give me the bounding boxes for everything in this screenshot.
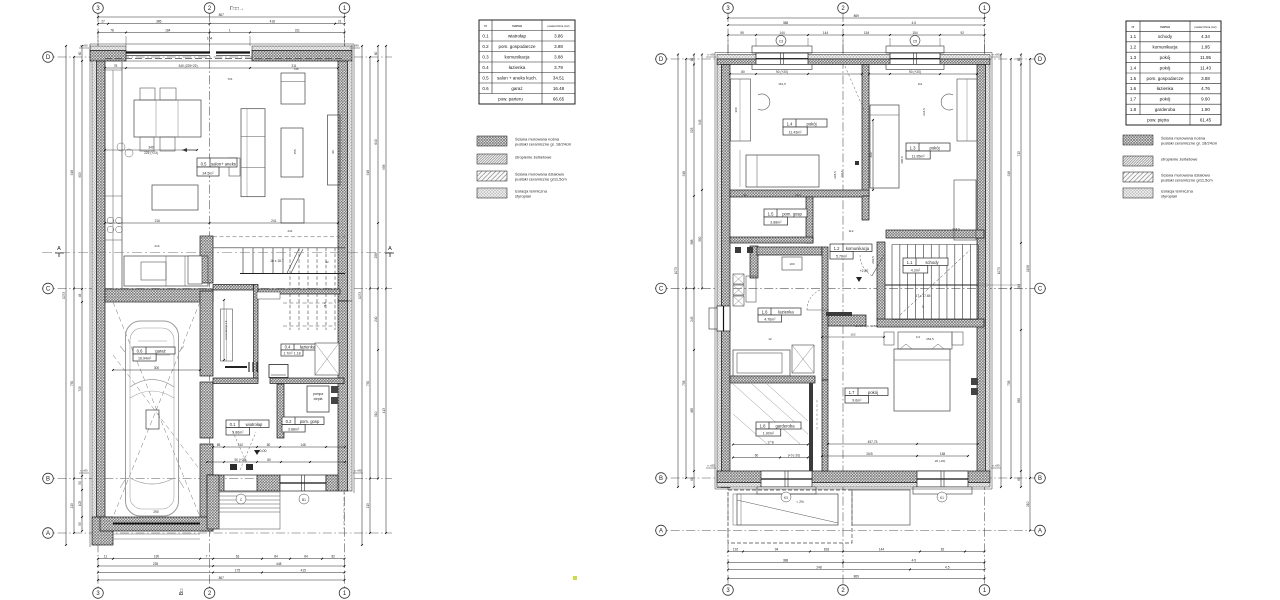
- svg-text:448: 448: [276, 562, 282, 566]
- svg-text:11.43m²: 11.43m²: [789, 131, 803, 135]
- svg-text:4-5: 4-5: [911, 21, 916, 25]
- svg-text:9.60: 9.60: [1201, 97, 1210, 102]
- svg-text:300: 300: [869, 152, 873, 158]
- svg-text:B□: B□: [179, 589, 185, 595]
- svg-text:418: 418: [270, 20, 276, 24]
- svg-text:Γ□□→: Γ□□→: [230, 6, 244, 12]
- svg-text:110: 110: [238, 443, 243, 447]
- svg-text:pokój: pokój: [929, 146, 939, 151]
- svg-text:n.+80: n.+80: [707, 53, 715, 57]
- svg-text:pom. gosp: pom. gosp: [300, 419, 320, 424]
- svg-text:D: D: [46, 55, 51, 61]
- svg-text:n.+80: n.+80: [354, 469, 362, 473]
- svg-text:pom. gosp: pom. gosp: [782, 212, 802, 217]
- svg-text:60: 60: [78, 52, 82, 56]
- svg-text:łazienka: łazienka: [1157, 86, 1174, 91]
- svg-text:90 (+20): 90 (+20): [776, 70, 788, 74]
- svg-text:3.88m²: 3.88m²: [288, 428, 300, 432]
- svg-text:4.76m²: 4.76m²: [764, 318, 776, 322]
- svg-text:0.2: 0.2: [286, 419, 292, 424]
- svg-text:1073: 1073: [997, 267, 1001, 274]
- svg-text:3.88: 3.88: [554, 54, 563, 59]
- svg-text:1.90m²: 1.90m²: [763, 432, 775, 436]
- svg-text:144: 144: [779, 31, 785, 35]
- svg-text:248: 248: [816, 565, 822, 569]
- svg-text:368: 368: [690, 239, 694, 245]
- svg-text:1.4: 1.4: [1130, 65, 1137, 70]
- svg-text:210: 210: [1026, 501, 1030, 507]
- svg-text:234,5: 234,5: [922, 108, 926, 116]
- svg-text:1.6: 1.6: [1130, 86, 1137, 91]
- svg-text:B: B: [1038, 476, 1042, 482]
- svg-text:20 (-20): 20 (-20): [935, 459, 946, 463]
- svg-text:869: 869: [854, 574, 860, 578]
- svg-text:1073: 1073: [358, 292, 362, 299]
- svg-text:n.+80: n.+80: [80, 469, 88, 473]
- svg-text:102,5: 102,5: [840, 170, 844, 177]
- svg-text:61.45: 61.45: [1200, 117, 1212, 122]
- svg-text:388: 388: [783, 558, 789, 562]
- svg-text:pom. gospodarcze: pom. gospodarcze: [498, 44, 536, 49]
- svg-text:1: 1: [229, 28, 231, 32]
- svg-text:3.88: 3.88: [554, 44, 563, 49]
- svg-text:78: 78: [114, 64, 118, 68]
- svg-text:pustaki ceramiczne gr11,5cm: pustaki ceramiczne gr11,5cm: [515, 177, 567, 182]
- svg-text:0.3: 0.3: [482, 54, 489, 59]
- svg-text:158: 158: [940, 452, 946, 456]
- svg-text:90: 90: [743, 193, 747, 197]
- svg-text:1.6: 1.6: [762, 310, 768, 315]
- svg-text:łazienka: łazienka: [778, 310, 794, 315]
- svg-text:pow. parteru: pow. parteru: [498, 96, 523, 101]
- svg-text:21b: 21b: [154, 244, 159, 248]
- svg-text:garaż: garaż: [155, 349, 165, 354]
- svg-text:∝ 2%: ∝ 2%: [796, 500, 804, 504]
- svg-text:pustaki ceramiczne gr. 18/24cm: pustaki ceramiczne gr. 18/24cm: [515, 142, 572, 147]
- svg-text:245: 245: [690, 316, 694, 322]
- svg-text:90: 90: [331, 150, 335, 154]
- svg-text:3.86: 3.86: [554, 33, 563, 38]
- svg-text:3.79: 3.79: [554, 65, 563, 70]
- svg-text:D: D: [659, 57, 664, 63]
- svg-text:34.51: 34.51: [553, 75, 565, 80]
- svg-text:pokój: pokój: [1160, 97, 1171, 102]
- svg-text:48: 48: [78, 294, 82, 298]
- svg-text:D: D: [1038, 57, 1043, 63]
- svg-text:14,2: 14,2: [795, 193, 801, 197]
- svg-text:1.3: 1.3: [1130, 55, 1137, 60]
- svg-text:pustaki ceramiczne gr11,5cm: pustaki ceramiczne gr11,5cm: [1161, 178, 1213, 183]
- svg-text:n.+80: n.+80: [80, 44, 88, 48]
- svg-text:82: 82: [331, 555, 335, 559]
- svg-text:łazienka: łazienka: [300, 345, 316, 350]
- svg-text:50: 50: [78, 481, 82, 485]
- svg-text:300: 300: [154, 366, 160, 370]
- svg-text:A: A: [46, 531, 50, 537]
- svg-text:n.+80: n.+80: [992, 53, 1000, 57]
- svg-text:340 (225+23): 340 (225+23): [178, 64, 197, 68]
- svg-text:styropian: styropian: [515, 194, 531, 199]
- svg-text:60: 60: [690, 58, 694, 62]
- svg-text:garderoba: garderoba: [775, 424, 795, 429]
- svg-text:garderoba: garderoba: [1155, 107, 1176, 112]
- svg-text:60: 60: [1017, 58, 1021, 62]
- svg-text:17 B: 17 B: [767, 440, 774, 444]
- svg-text:869: 869: [854, 14, 860, 18]
- svg-text:0.4: 0.4: [285, 345, 291, 350]
- svg-text:schody: schody: [1158, 34, 1173, 39]
- svg-text:stropienie żelbetowe: stropienie żelbetowe: [1161, 157, 1198, 162]
- svg-text:215: 215: [70, 503, 74, 509]
- svg-text:n.+80: n.+80: [707, 464, 715, 468]
- svg-text:80: 80: [267, 458, 271, 462]
- svg-text:schody: schody: [925, 260, 939, 265]
- svg-text:162: 162: [850, 333, 855, 337]
- svg-text:1.5: 1.5: [768, 212, 774, 217]
- svg-text:311: 311: [295, 28, 300, 32]
- svg-text:16.94m²: 16.94m²: [138, 357, 152, 361]
- svg-text:216: 216: [155, 219, 161, 223]
- svg-text:746: 746: [293, 67, 298, 71]
- svg-text:184: 184: [165, 28, 171, 32]
- svg-text:340: 340: [148, 146, 154, 150]
- svg-text:16.48: 16.48: [553, 86, 565, 91]
- svg-text:0.1: 0.1: [230, 422, 236, 427]
- svg-text:wiatrołap: wiatrołap: [508, 33, 527, 38]
- svg-text:721: 721: [227, 77, 232, 81]
- svg-text:241: 241: [287, 229, 292, 233]
- svg-text:111: 111: [918, 82, 923, 86]
- svg-text:1.7: 1.7: [1130, 97, 1137, 102]
- svg-text:1.1: 1.1: [1130, 34, 1137, 39]
- svg-text:4-5: 4-5: [911, 558, 916, 562]
- svg-text:640: 640: [374, 139, 378, 145]
- svg-text:95: 95: [740, 31, 744, 35]
- svg-text:ciepła: ciepła: [314, 397, 323, 401]
- svg-text:powierzchnia (m2): powierzchnia (m2): [1195, 25, 1217, 29]
- svg-text:salon+ aneks: salon+ aneks: [211, 162, 236, 167]
- svg-text:144: 144: [823, 31, 829, 35]
- svg-text:92: 92: [960, 31, 964, 35]
- svg-text:B1: B1: [302, 498, 306, 502]
- svg-text:11.95m²: 11.95m²: [912, 155, 926, 159]
- svg-text:1.7: 1.7: [849, 390, 855, 395]
- svg-text:K1: K1: [940, 496, 944, 500]
- svg-text:867: 867: [219, 13, 225, 17]
- svg-text:1.8: 1.8: [760, 424, 766, 429]
- svg-text:545: 545: [698, 119, 702, 125]
- svg-text:C: C: [46, 287, 51, 293]
- svg-text:12: 12: [768, 337, 772, 341]
- svg-text:komunikacja 2.6: komunikacja 2.6: [224, 320, 228, 339]
- svg-text:175: 175: [235, 568, 241, 572]
- svg-text:0.1: 0.1: [482, 33, 489, 38]
- svg-text:powierzchnia (m2): powierzchnia (m2): [548, 24, 570, 28]
- svg-text:B: B: [46, 477, 50, 483]
- svg-text:wiatrołap: wiatrołap: [246, 422, 263, 427]
- svg-text:3.88: 3.88: [1201, 76, 1210, 81]
- svg-text:258: 258: [374, 253, 378, 259]
- svg-text:155: 155: [293, 149, 297, 154]
- svg-text:154: 154: [912, 31, 918, 35]
- svg-text:60: 60: [374, 52, 378, 56]
- svg-text:0.4: 0.4: [482, 65, 489, 70]
- svg-text:pokój: pokój: [806, 122, 816, 127]
- svg-text:11.95: 11.95: [1200, 55, 1211, 60]
- svg-text:1.2: 1.2: [834, 246, 840, 251]
- svg-text:alm 1/T wys. 90/50: alm 1/T wys. 90/50: [855, 324, 877, 328]
- svg-text:60: 60: [690, 477, 694, 481]
- svg-text:A: A: [57, 246, 61, 252]
- svg-text:78: 78: [110, 28, 114, 32]
- svg-text:4.34: 4.34: [1201, 34, 1210, 39]
- svg-text:903: 903: [78, 172, 82, 178]
- svg-text:1.2: 1.2: [1130, 45, 1137, 50]
- svg-text:388: 388: [783, 21, 789, 25]
- svg-text:pow. piętra: pow. piętra: [1147, 117, 1169, 122]
- svg-text:pokój: pokój: [1160, 55, 1171, 60]
- svg-text:148: 148: [300, 443, 306, 447]
- svg-text:C: C: [1038, 287, 1043, 293]
- svg-text:garaż: garaż: [511, 86, 523, 91]
- svg-text:867: 867: [219, 576, 225, 580]
- svg-text:(+0 (-20): (+0 (-20): [788, 453, 800, 457]
- svg-text:21: 21: [338, 20, 342, 24]
- svg-text:1.7m² 1.18: 1.7m² 1.18: [283, 352, 300, 356]
- svg-text:1073: 1073: [62, 292, 66, 299]
- svg-text:pokój: pokój: [1160, 65, 1171, 70]
- svg-text:84: 84: [304, 555, 308, 559]
- svg-text:komunikacja: komunikacja: [846, 246, 870, 251]
- svg-text:4.3m²: 4.3m²: [911, 269, 921, 273]
- svg-text:17 x 17.65: 17 x 17.65: [916, 294, 931, 298]
- svg-text:A: A: [659, 529, 663, 535]
- svg-text:26/5: 26/5: [866, 452, 872, 456]
- svg-text:0.2: 0.2: [482, 44, 489, 49]
- svg-text:80: 80: [267, 443, 271, 447]
- svg-text:3.86m²: 3.86m²: [232, 431, 244, 435]
- svg-text:745: 745: [78, 386, 82, 392]
- svg-text:94: 94: [775, 547, 779, 551]
- svg-text:525: 525: [690, 127, 694, 133]
- svg-text:łazienka: łazienka: [509, 65, 526, 70]
- svg-text:B: B: [659, 476, 663, 482]
- svg-text:pompa: pompa: [313, 392, 323, 396]
- svg-text:C: C: [659, 287, 664, 293]
- svg-text:565: 565: [1017, 398, 1021, 404]
- svg-text:90 (+20): 90 (+20): [235, 458, 247, 462]
- svg-text:0.5: 0.5: [201, 162, 207, 167]
- svg-text:241: 241: [271, 219, 277, 223]
- svg-text:1.5: 1.5: [1130, 76, 1137, 81]
- svg-text:4.76: 4.76: [1201, 86, 1210, 91]
- svg-text:290: 290: [153, 510, 159, 514]
- svg-text:918: 918: [366, 170, 370, 176]
- svg-text:3.88m²: 3.88m²: [770, 221, 782, 225]
- svg-text:styropian: styropian: [1161, 194, 1177, 199]
- svg-text:154: 154: [864, 31, 870, 35]
- svg-text:1.1: 1.1: [907, 260, 913, 265]
- svg-text:+2,80: +2,80: [860, 269, 869, 273]
- svg-text:192: 192: [733, 547, 739, 551]
- svg-text:413: 413: [382, 408, 386, 414]
- svg-text:5: 5: [922, 305, 924, 309]
- svg-text:818: 818: [824, 547, 830, 551]
- svg-text:34.5m²: 34.5m²: [202, 172, 214, 176]
- svg-text:1.90: 1.90: [1201, 107, 1210, 112]
- svg-text:1.95: 1.95: [1201, 45, 1210, 50]
- svg-text:K3: K3: [784, 496, 788, 500]
- svg-text:190: 190: [154, 555, 160, 559]
- svg-text:415: 415: [301, 568, 307, 572]
- svg-text:300: 300: [734, 107, 738, 112]
- svg-text:1.8: 1.8: [1130, 107, 1137, 112]
- svg-text:0.6: 0.6: [137, 349, 143, 354]
- svg-text:11: 11: [104, 555, 108, 559]
- svg-text:nazwa: nazwa: [512, 24, 522, 28]
- svg-text:66.65: 66.65: [553, 96, 565, 101]
- svg-text:1158: 1158: [1026, 265, 1030, 272]
- svg-text:11.43: 11.43: [1200, 65, 1211, 70]
- svg-text:112: 112: [849, 229, 854, 233]
- svg-text:90 (+20): 90 (+20): [909, 70, 921, 74]
- svg-text:144: 144: [879, 547, 885, 551]
- svg-text:750: 750: [366, 381, 370, 387]
- svg-text:758: 758: [682, 380, 686, 386]
- svg-text:100: 100: [789, 262, 794, 266]
- svg-text:918: 918: [70, 170, 74, 176]
- svg-text:7: 7: [206, 555, 208, 559]
- svg-text:60: 60: [1017, 477, 1021, 481]
- svg-text:A: A: [1038, 529, 1042, 535]
- svg-text:485: 485: [690, 408, 694, 414]
- svg-text:0,3: 0,3: [916, 335, 921, 339]
- svg-text:9.6m²: 9.6m²: [852, 399, 862, 403]
- svg-text:1.3: 1.3: [910, 146, 916, 151]
- svg-text:0.5: 0.5: [482, 75, 489, 80]
- svg-text:85: 85: [217, 443, 221, 447]
- svg-text:1.4: 1.4: [787, 122, 793, 127]
- svg-text:161,5: 161,5: [778, 82, 786, 86]
- svg-text:300,5: 300,5: [900, 156, 904, 164]
- svg-text:C5: C5: [913, 39, 917, 43]
- svg-text:294,5: 294,5: [833, 171, 837, 179]
- svg-text:958: 958: [382, 164, 386, 170]
- svg-text:82: 82: [941, 547, 945, 551]
- svg-text:pom. gospodarcze: pom. gospodarcze: [1146, 76, 1184, 81]
- svg-text:758: 758: [1007, 380, 1011, 386]
- svg-text:918: 918: [1007, 171, 1011, 177]
- svg-text:918: 918: [682, 171, 686, 177]
- svg-text:5.76m²: 5.76m²: [836, 255, 848, 259]
- svg-text:0.6: 0.6: [482, 86, 489, 91]
- svg-text:60: 60: [755, 453, 759, 457]
- svg-text:84: 84: [274, 555, 278, 559]
- svg-text:92: 92: [325, 260, 329, 264]
- svg-text:pustaki ceramiczne gr. 18/24cm: pustaki ceramiczne gr. 18/24cm: [1161, 141, 1218, 146]
- svg-text:750: 750: [70, 381, 74, 387]
- svg-text:4.5: 4.5: [945, 565, 950, 569]
- svg-text:74.5: 74.5: [323, 302, 327, 308]
- svg-text:215: 215: [366, 503, 370, 509]
- svg-text:1b x 18.7: 1b x 18.7: [270, 259, 284, 263]
- svg-text:249,5: 249,5: [871, 256, 875, 264]
- svg-text:A: A: [388, 246, 392, 252]
- svg-text:390: 390: [698, 236, 702, 242]
- svg-text:235: 235: [153, 562, 159, 566]
- svg-text:497,75: 497,75: [868, 440, 878, 444]
- svg-text:pokój: pokój: [868, 390, 878, 395]
- svg-text:254,5: 254,5: [926, 337, 934, 341]
- svg-text:80: 80: [741, 70, 745, 74]
- svg-text:27: 27: [101, 20, 105, 24]
- svg-text:C3: C3: [779, 39, 783, 43]
- svg-text:105: 105: [78, 501, 82, 507]
- svg-text:1073: 1073: [674, 267, 678, 274]
- svg-text:715: 715: [1017, 151, 1021, 157]
- svg-text:n.+80: n.+80: [992, 464, 1000, 468]
- svg-text:salon + aneks kuch.: salon + aneks kuch.: [497, 75, 537, 80]
- svg-text:55: 55: [78, 522, 82, 526]
- svg-text:komunikacja: komunikacja: [504, 54, 530, 59]
- svg-text:komunikacja: komunikacja: [1152, 45, 1178, 50]
- svg-text:240: 240: [374, 316, 378, 322]
- svg-text:225 (+23): 225 (+23): [144, 151, 158, 155]
- svg-text:510: 510: [374, 411, 378, 417]
- svg-text:348: 348: [1017, 284, 1021, 290]
- svg-text:63: 63: [236, 555, 240, 559]
- svg-text:234,5: 234,5: [952, 227, 960, 231]
- svg-text:nazwa: nazwa: [1160, 25, 1170, 29]
- svg-text:386: 386: [156, 20, 162, 24]
- svg-text:stropienie żelbetowe: stropienie żelbetowe: [515, 155, 552, 160]
